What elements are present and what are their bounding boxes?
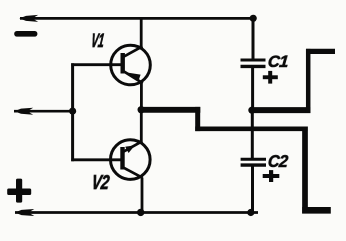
polarity plus of C2 [263, 170, 280, 182]
thick bootstrap wire (cap midpoint to upper right terminal) [252, 49, 335, 113]
node top rail to C1 [250, 15, 257, 22]
node V2 collector to bottom rail [137, 209, 144, 216]
wire C2 top lead [251, 110, 254, 159]
node C2 to bottom rail [247, 209, 254, 216]
thick output wire (from emitters node, stepped, to lower right terminal) [139, 107, 331, 214]
svg-text:C1: C1 [267, 52, 289, 71]
wire bottom rail [15, 211, 258, 214]
svg-text:V2: V2 [90, 171, 110, 194]
arrow on top rail (negative supply) [19, 15, 38, 22]
polarity plus of C1 [263, 71, 278, 84]
wire V2 collector lead [141, 178, 144, 214]
arrow on input wire [14, 108, 33, 115]
svg-text:V1: V1 [90, 31, 105, 52]
node input junction [69, 108, 76, 115]
wire C1 bottom lead [251, 68, 254, 110]
transistor V2 (NPN) [111, 140, 151, 180]
wire top rail [20, 17, 256, 20]
minus terminal label [14, 31, 37, 37]
wire middle input arrow [14, 110, 72, 113]
node capacitor midpoint [248, 107, 255, 114]
arrow on bottom rail (positive supply) [15, 209, 35, 216]
wire V1 collector lead [140, 18, 143, 49]
wire V2 emitter lead [140, 110, 143, 142]
svg-text:C2: C2 [267, 151, 289, 171]
wire V1 base lead [71, 63, 121, 66]
node output junction [138, 106, 145, 113]
wire C1 top lead [252, 18, 255, 60]
wire V2 base lead [71, 158, 121, 161]
transistor V1 (PNP) [111, 45, 151, 85]
capacitor C1 [241, 60, 266, 66]
wire input base bus [71, 63, 74, 161]
plus terminal label [7, 179, 31, 203]
wire C2 bottom lead [251, 167, 254, 214]
wire V1 emitter lead [140, 83, 143, 110]
capacitor C2 [241, 159, 266, 165]
